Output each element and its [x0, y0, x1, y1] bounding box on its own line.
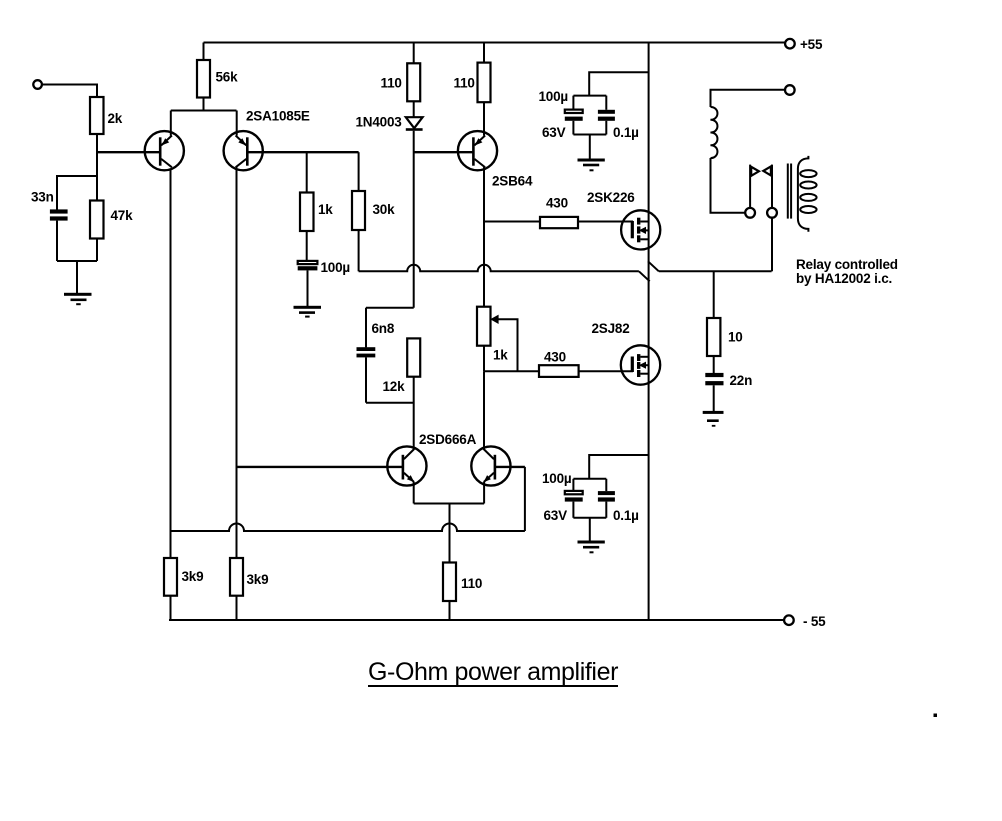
inductor output coil	[711, 107, 718, 158]
terminal +55	[785, 37, 823, 52]
ground	[578, 159, 605, 172]
svg-text:110: 110	[454, 76, 475, 91]
wire Q1 bottom lead long vertical	[170, 168, 172, 558]
cap group upper box	[573, 95, 606, 97]
capacitor 100u 63V electrolytic lower	[542, 471, 583, 523]
diode 1N4003	[356, 115, 423, 131]
wire bottom joining to ground stem	[57, 260, 97, 262]
svg-text:1k: 1k	[493, 348, 508, 363]
wire feedback line with bumps	[171, 524, 525, 532]
svg-text:Relay controlled: Relay controlled	[796, 257, 898, 272]
resistor 56k	[197, 43, 238, 111]
svg-text:2SJ82: 2SJ82	[592, 321, 630, 336]
svg-text:12k: 12k	[383, 379, 406, 394]
ground	[294, 306, 322, 318]
svg-text:2SA1085E: 2SA1085E	[246, 109, 310, 124]
svg-text:100µ: 100µ	[539, 89, 569, 104]
svg-text:1k: 1k	[318, 202, 333, 217]
transistor Q2 2SA1085E right	[224, 109, 310, 171]
wire 10 to 22n	[713, 356, 715, 373]
wire 110 to Q3 top	[483, 102, 485, 135]
wire 12k down to Q4	[413, 377, 415, 450]
svg-text:56k: 56k	[216, 70, 239, 85]
svg-text:10: 10	[728, 330, 743, 345]
jog crossover at right bus	[639, 271, 650, 281]
svg-text:+55: +55	[800, 37, 823, 52]
wire node under 56k	[171, 110, 237, 112]
ground	[703, 411, 724, 427]
transistor Q1 2SA1085E left	[145, 131, 184, 170]
capacitor 22n	[705, 373, 752, 388]
svg-text:110: 110	[381, 76, 402, 91]
svg-text:47k: 47k	[111, 208, 134, 223]
wire output up to relay contact	[771, 218, 773, 272]
transistor Q3 2SB64	[458, 131, 533, 188]
capacitor 33n	[31, 190, 68, 221]
svg-text:0.1µ: 0.1µ	[613, 508, 639, 523]
resistor 110 first	[381, 43, 421, 102]
wire 2k bottom down to 47k	[96, 134, 98, 201]
wire 430 to 2SK226 gate	[578, 221, 633, 223]
capacitor 100u 63V electrolytic upper	[539, 89, 583, 140]
capacitor 0.1u lower	[598, 491, 639, 523]
wire emitters join	[413, 482, 415, 504]
svg-text:G-Ohm power amplifier: G-Ohm power amplifier	[368, 658, 618, 686]
resistor 12k	[383, 338, 421, 394]
svg-text:2SD666A: 2SD666A	[419, 432, 477, 447]
resistor 430 lower	[539, 350, 579, 377]
svg-text:2k: 2k	[108, 111, 123, 126]
top bus wire +55	[204, 42, 786, 44]
relay core bars	[788, 164, 791, 219]
wire 30k down to hop wire	[358, 230, 360, 271]
right bus vertical	[648, 43, 650, 621]
resistor 110 bottom	[443, 563, 482, 602]
svg-text:30k: 30k	[373, 202, 396, 217]
ground	[578, 541, 605, 554]
resistor 3k9 right	[230, 558, 268, 596]
capacitor 100u electrolytic	[298, 260, 350, 275]
svg-text:22n: 22n	[730, 373, 753, 388]
wire diode down long vertical	[413, 131, 415, 308]
title	[368, 658, 618, 686]
cap group lower: wire from bus	[589, 455, 648, 479]
relay contact left	[745, 165, 759, 218]
resistor 10	[707, 318, 743, 356]
svg-text:100µ: 100µ	[542, 471, 572, 486]
wire relay feed	[711, 90, 785, 107]
wire 1k to 100u	[306, 231, 308, 261]
transistor Q4 2SD666A left	[387, 432, 476, 486]
note text relay	[796, 257, 898, 286]
cap group lower bottom	[572, 502, 574, 518]
wire hop line to output with bumps	[359, 265, 639, 272]
wire 47k bottom	[96, 239, 98, 262]
wire node down to Q5	[483, 371, 485, 449]
input terminal	[33, 80, 42, 89]
svg-text:1N4003: 1N4003	[356, 115, 403, 130]
ground	[64, 293, 92, 305]
svg-text:- 55: - 55	[803, 614, 826, 629]
wire Q2 bottom lead long vertical to 3k9	[236, 167, 238, 558]
resistor 47k	[90, 201, 133, 239]
wire Q2 base to 1k/30k node	[247, 151, 359, 153]
bottom bus wire -55	[169, 619, 784, 621]
wire 3k9 right to bus	[236, 596, 238, 620]
resistor 3k9 left	[164, 558, 203, 596]
transistor Q5 2SD666A right	[471, 446, 510, 485]
mosfet 2SJ82	[592, 321, 661, 385]
wire 110 to diode	[413, 101, 415, 117]
svg-text:63V: 63V	[544, 508, 568, 523]
output terminal	[785, 85, 795, 95]
resistor 30k	[352, 152, 395, 230]
relay contact right	[763, 165, 777, 218]
wire branch to 430 gate resistor	[484, 221, 540, 223]
capacitor 6n8 box	[357, 308, 414, 403]
svg-text:430: 430	[546, 196, 568, 211]
wire node to Q1 base	[97, 151, 159, 153]
resistor 2k	[90, 97, 123, 134]
wire 22n to ground	[713, 385, 715, 411]
svg-text:3k9: 3k9	[182, 569, 204, 584]
wire branch to 33n	[57, 176, 97, 210]
wire trimpot bottom node	[483, 346, 485, 372]
wire Q1 collector top	[170, 111, 172, 136]
stray dot	[934, 714, 938, 718]
cap group upper bottom	[572, 121, 574, 135]
svg-text:by HA12002 i.c.: by HA12002 i.c.	[796, 271, 892, 286]
cap group lower box	[573, 478, 606, 480]
wire 3k9 left to bus	[170, 596, 172, 620]
wire to Q3 base	[414, 151, 473, 153]
wire Q3 bottom lead down to trimpot	[483, 167, 485, 307]
svg-text:0.1µ: 0.1µ	[613, 125, 639, 140]
svg-text:2SK226: 2SK226	[587, 190, 635, 205]
svg-text:110: 110	[461, 576, 482, 591]
capacitor 0.1u upper	[598, 110, 639, 140]
svg-text:33n: 33n	[31, 190, 54, 205]
mosfet 2SK226	[587, 190, 660, 249]
wire emitter node to 110	[449, 504, 451, 563]
wire output node to 10	[713, 271, 715, 318]
svg-text:63V: 63V	[542, 125, 566, 140]
terminal -55	[784, 614, 826, 629]
cap group upper: wire from bus	[589, 72, 648, 95]
wire 33n to bottom	[56, 221, 58, 261]
svg-text:6n8: 6n8	[372, 321, 395, 336]
wire 100u to ground	[307, 270, 309, 306]
svg-text:100µ: 100µ	[321, 260, 351, 275]
wire Q4 base from Q2 vertical	[237, 466, 403, 468]
wire 430 to 2SJ82 gate	[579, 370, 633, 372]
svg-text:3k9: 3k9	[247, 572, 269, 587]
svg-text:2SB64: 2SB64	[492, 174, 533, 189]
resistor 430 upper	[540, 196, 578, 229]
trimpot 1k	[477, 271, 518, 371]
wire input to 2k	[42, 85, 97, 98]
wire Q5 base to feedback	[496, 466, 525, 468]
relay coil	[798, 156, 817, 232]
wire output segment	[659, 270, 772, 272]
svg-text:430: 430	[544, 350, 566, 365]
wire inductor to contact	[711, 158, 745, 213]
resistor 1k	[300, 152, 333, 231]
wire 110 bottom to bus	[449, 601, 451, 620]
wire Q2 top lead	[236, 111, 238, 136]
resistor 110 second	[454, 43, 491, 103]
